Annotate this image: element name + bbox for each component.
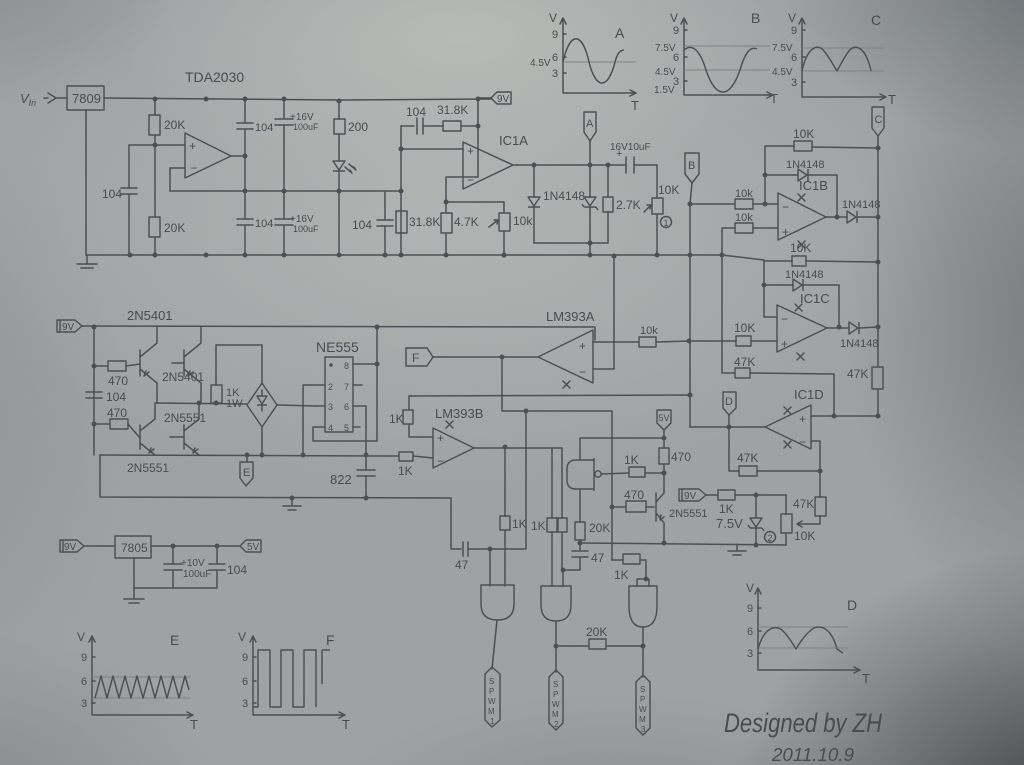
resistor 20K top [154,99,156,145]
resistor 10k noninv input [722,228,778,255]
graph C levels [802,48,884,71]
resistor 470 base row [612,506,654,508]
resistor 10k from LM393A [593,341,689,342]
resistor 47K to IC1D [722,255,834,416]
graph A sine [563,39,624,83]
wire bottom rail right [580,543,786,545]
wire F column [502,357,612,560]
wire 7809 ground drop [85,110,87,255]
wire output [231,155,245,157]
resistor 470 lower [94,424,140,438]
wire to gate1 left input [490,411,526,586]
resistor 20K TO92 bottom [579,489,581,543]
diode 1N4148 output IC1C [849,322,859,334]
wire diamond bottom [261,427,263,455]
resistor 1K base drive [601,473,664,474]
diode 1N4148 output IC1B [847,211,857,223]
wire 7805 ground [134,558,217,588]
wire diamond right to pin3 [277,405,316,406]
wire IC1A output row [513,164,657,166]
gate U3 [629,586,657,627]
capacitor 47 coupling [463,542,490,556]
connector flag 5V low [240,540,261,552]
capacitor 104 series [401,118,443,134]
node B flag [685,153,699,183]
graph C axes [799,18,886,100]
ground [728,544,746,555]
capacitor 104 rail top [237,99,253,191]
op-amp LM393A [538,330,593,383]
wire NE555 supply column [366,327,377,455]
capacitor +16V 100uF bottom [275,191,293,255]
resistor 10K noninv input IC1C [689,340,777,342]
wire pin3 [316,405,325,407]
op-amp IC1C [777,305,827,352]
wire bottom rail [86,255,764,260]
wire inv feedback [811,441,820,471]
capacitor 104 input [121,145,137,255]
node A flag [584,112,596,141]
resistor 1K gate1 [504,448,506,586]
op-amp IC1A [463,142,513,189]
graph D humps [758,627,843,653]
wire F to LM393A [433,356,538,358]
graph B sine [684,47,757,92]
capacitor 104 vertical [377,191,393,255]
wire pin6 [353,406,366,441]
capacitor +16V 100uF top [275,99,293,191]
resistor 47K vertical to pot [797,471,820,527]
ground [283,498,301,510]
resistor 1K gate2 left [551,448,553,586]
node F flag [406,348,433,366]
resistor gate2 right [561,448,563,570]
wire top 9V rail [104,98,491,100]
wire noninv input [129,144,185,146]
wire left bus [93,327,95,455]
resistor 1K to inv [399,452,413,461]
transistor Q2 2N5401 [172,327,201,403]
resistor 31.8K series [443,121,461,131]
transistor Q4 2N5551 [170,403,199,455]
node E flag [246,455,248,462]
wire signal rail [100,455,433,458]
wire pin2 [303,385,325,455]
op-amp IC1B [778,193,826,240]
graph B axes [681,18,773,98]
ground [124,588,144,603]
regulator 7805 [115,536,151,558]
resistor 2.7K [607,165,609,243]
graph E levels [92,677,190,698]
wire pin4 bracket [313,427,377,441]
wire inv input [764,316,777,318]
wire inv column to mid rail [593,256,614,369]
wire 5V row [580,438,664,460]
wire 9V drop [477,99,479,177]
wire ground rail drop [451,498,461,549]
wire pin7 stub [353,384,362,386]
connector SPWM2 [555,621,557,672]
wire C column [877,136,879,416]
gate U2 [541,586,571,621]
capacitor 104 rail bottom [237,191,253,255]
diode 1N4148 feedback IC1C [764,284,793,286]
resistor 200 [338,101,340,160]
graph B levels [684,46,770,70]
resistor 4.7K vertical [445,202,447,255]
resistor 20K bottom link [556,645,643,647]
wire B column [690,183,692,427]
gate U1 [481,585,514,620]
regulator 7809 [67,86,104,110]
resistor 1K noninv bias [409,396,433,437]
wire pin5 stub [353,426,360,428]
connector SPWM3 [642,627,644,677]
resistor 20K bottom [154,145,156,255]
label circled 2 [765,532,776,543]
graph A midline [563,61,636,63]
IC NE555 [325,357,353,432]
resistor 1K bias [718,490,735,500]
resistor 31.8K vertical [396,211,407,233]
wire inv feedback [446,177,504,202]
resistor 10k inv input [690,203,778,205]
potentiometer 10K output [785,495,787,545]
potentiometer 10K with wiper [656,165,658,255]
wire diamond top [216,345,262,383]
label circled 1 [661,217,672,228]
capacitor 16V 100uF coupling [626,157,634,173]
wire long row from LM393B bias [409,395,690,396]
transistor Q1 2N5401 [140,327,157,403]
graph E axes [89,636,193,718]
connector flag 9V left [57,320,82,332]
graph D levels [758,627,848,648]
wire D row [690,426,765,428]
transistor 2N5551 driver [656,473,664,543]
resistor 470 collector [663,438,665,473]
diode LED [333,161,345,171]
op-amp IC1D [765,405,811,449]
potentiometer 10k [503,202,505,255]
wire 9V rail middle [82,326,595,340]
connector flag 9V [491,92,511,104]
node D flag [723,392,736,415]
graph E triangle wave [95,676,189,698]
wire IC1B output [826,216,847,218]
graph F pulses [253,650,330,707]
graph F axes [250,636,345,718]
resistor 1K 1W [215,345,217,385]
graph D axes [755,588,860,673]
transducer TO92 [567,458,594,491]
wire pin8 [353,363,377,365]
wire noninv row [811,415,878,417]
wire LM393B output row [474,447,562,449]
node C flag [872,107,884,136]
resistor 47K C column [872,367,883,389]
connector flag 9V low [60,540,84,552]
connector flag 9V bias [679,489,706,501]
diode zener 7.5V [755,495,757,518]
capacitor 104 low [209,546,225,588]
bridge diamond with diode [247,383,277,427]
connector flag 5V [657,410,671,430]
wire rail into inv node [763,260,765,317]
op-amp LM393B [433,428,474,468]
wire IC1A input column [400,126,402,255]
wire mid row [155,403,247,404]
graph A axes [560,18,636,96]
resistor 1K to gate3 [612,560,649,586]
capacitor +10V 100uF [164,546,182,588]
capacitor 47 below [563,543,588,586]
resistor 47K D feedback [729,427,820,471]
wire sub rail [534,243,608,255]
diode zener [589,165,591,197]
op-amp TDA2030 triangle [185,133,231,178]
wire IC1C output [827,327,849,329]
diode 1N4148 feedback IC1B [765,174,798,176]
connector SPWM1 [492,620,497,669]
resistor 10K feedback IC1B [765,146,878,204]
resistor 10K feedback IC1C [764,261,878,262]
resistor 470 upper [94,364,140,366]
capacitor 104 bus [86,392,102,398]
ground [77,255,97,268]
wire noninv row [401,148,463,150]
wire output bus [170,190,401,192]
capacitor 822 [357,455,375,498]
diode 1N4148 [533,165,535,197]
wire inv input feedback [170,168,185,191]
transistor Q3 2N5551 [140,403,155,455]
graph C humps [802,47,871,71]
wire ground rail left [100,455,451,498]
input connector [44,93,67,103]
